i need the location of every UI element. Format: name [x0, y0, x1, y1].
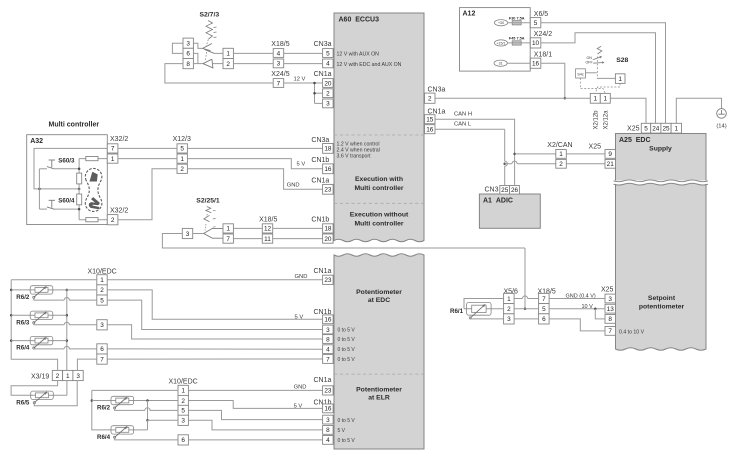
note 1.2V when control [337, 141, 380, 147]
ECU block A1 ADIC (gray box) [479, 194, 540, 228]
wire R6/4 right up (ELR) [147, 420, 149, 430]
wire R6/4 wiper to X10-6 [34, 348, 64, 350]
wire X10-2 to CN1b-16 [107, 290, 322, 319]
wire X18/5-6 to X25-7 [549, 319, 605, 331]
label CN3 [485, 186, 499, 193]
note CAN L [454, 122, 472, 128]
connector X2/12a pin 1 [600, 93, 610, 103]
wire X18/5-4 to CN3a-5 [284, 52, 323, 54]
potentiometer R6/1 [467, 302, 492, 319]
separator dashed A60 upper [334, 134, 424, 136]
label CN1b (pot EDC) [314, 309, 332, 316]
svg-text:CN1a: CN1a [314, 268, 332, 275]
wire +15/1 to X24/2-10 [508, 42, 531, 44]
wire lever to contact 1 [597, 77, 616, 79]
svg-text:5: 5 [542, 306, 546, 313]
resistor R upper (A32 chain) [77, 173, 82, 184]
svg-text:Execution without: Execution without [350, 212, 409, 219]
note 0 to 5 V (ELR) [338, 418, 356, 424]
svg-text:5: 5 [181, 408, 185, 415]
svg-text:7: 7 [326, 356, 330, 363]
svg-text:+15/1: +15/1 [496, 41, 505, 45]
wire R6/1 wiper to X5/6-3 [471, 316, 504, 319]
wire pin1 to X18/5-4 [233, 52, 273, 54]
svg-text:4: 4 [326, 347, 330, 354]
label CN1a (top) [314, 71, 332, 78]
pushbutton S60/4 [39, 208, 47, 210]
note 0 to 5 V [338, 337, 356, 343]
svg-text:3: 3 [326, 101, 330, 108]
svg-text:A1 ADIC: A1 ADIC [483, 197, 513, 204]
label X32/2 (upper) [110, 136, 128, 143]
fuse F45 7.5A [512, 41, 521, 45]
note 0.4 to 10 V [619, 330, 645, 336]
svg-text:4: 4 [326, 437, 330, 444]
note 0 to 5 V (ELR) [338, 438, 356, 444]
wire X12/3-5 to CN3a-18 [187, 147, 322, 149]
label S60/4 [58, 198, 75, 205]
svg-text:+30: +30 [498, 21, 504, 25]
svg-text:0 to 5 V: 0 to 5 V [338, 418, 356, 424]
wire X2/CAN-2 to X25-21 [566, 163, 605, 165]
note 0 to 5 V [338, 347, 356, 353]
connector X3/19 pins 2/1/3 [52, 370, 62, 380]
label X18/5 (exec) [259, 217, 277, 224]
connector X24/5 pin 7 [273, 79, 284, 88]
svg-text:26: 26 [511, 187, 519, 194]
svg-text:3: 3 [186, 231, 190, 238]
svg-text:7: 7 [100, 356, 104, 363]
wire bus to X10-3 (ELR) [148, 419, 179, 421]
junction ELR left bus R6/2 [91, 399, 94, 402]
svg-text:0 to 5 V: 0 to 5 V [338, 337, 356, 343]
connector X18/5 pins 12/11 [262, 224, 272, 243]
svg-text:X32/2: X32/2 [110, 208, 128, 215]
junction ELR center bus top [146, 399, 149, 402]
svg-text:8: 8 [608, 316, 612, 323]
wire R6/4 through (ELR) [112, 429, 148, 431]
wire branch to CN1a-2 [315, 92, 323, 94]
svg-text:R6/2: R6/2 [97, 405, 111, 412]
label CN1a (right) [428, 108, 446, 115]
wire pin8 to X24/5-7 [165, 64, 273, 83]
junction setpoint select [524, 307, 527, 310]
svg-text:R6/1: R6/1 [450, 308, 464, 315]
svg-text:6: 6 [181, 437, 185, 444]
wire X18/5-3 to CN3a-4 [284, 63, 323, 65]
label CN3a (top) [314, 41, 332, 48]
label Potentiometer (ELR) [356, 387, 402, 394]
svg-text:16: 16 [324, 406, 332, 413]
label Multi controller (with) [354, 185, 403, 192]
wire S4c to lever [585, 72, 596, 74]
connector CN1a pin 23 (exec) [323, 184, 334, 194]
svg-text:12 V with EDC and AUX ON: 12 V with EDC and AUX ON [337, 62, 402, 68]
label CN3a (mid) [311, 137, 329, 144]
note 5 V (multi) [297, 162, 306, 168]
label X2/12a (vertical) [604, 110, 610, 130]
connector X5/6 pins 1/2/3 [504, 293, 514, 324]
junction center bus R6/2 [66, 289, 69, 292]
svg-text:6: 6 [186, 51, 190, 58]
note GND (multi) [287, 182, 300, 188]
wire left bus (EDC pots) [11, 280, 57, 371]
svg-text:S60/4: S60/4 [58, 198, 75, 205]
svg-text:0 to 5 V: 0 to 5 V [338, 328, 356, 334]
junction 12V at pin2 [313, 92, 316, 95]
connector X10/EDC pins 6/7 [97, 344, 107, 364]
wire R6/4 through [11, 340, 67, 342]
svg-text:S4c: S4c [577, 73, 584, 77]
connector CN1a pin 23 (pot EDC) [323, 275, 334, 284]
wire R6/5 through [29, 394, 67, 396]
ECU block A60 ECCU3 (gray box, torn bottom edge) [334, 13, 424, 242]
svg-text:6: 6 [542, 316, 546, 323]
potentiometer R6/4 (ELR) [97, 426, 134, 441]
junction A32 bus-left [38, 188, 41, 191]
svg-text:16: 16 [426, 127, 434, 134]
svg-text:X18/5: X18/5 [271, 41, 289, 48]
svg-text:18: 18 [324, 146, 332, 153]
svg-text:S2/25/1: S2/25/1 [196, 198, 220, 205]
wire contact to pin1 [214, 52, 223, 54]
connector X32/2 pins 7/1 [107, 144, 118, 163]
svg-text:Multi controller: Multi controller [49, 121, 100, 128]
ECU block A25 EDC / Setpoint potentiometer (gray box, torn edges) [616, 134, 707, 351]
svg-text:X25: X25 [627, 126, 640, 133]
label S2/7/3 [199, 12, 219, 19]
torn tear band across A25 box [614, 181, 709, 185]
ground terminal 31 [494, 60, 507, 66]
connector X25 pins 3/13/8/7 [605, 294, 616, 335]
lower ECU block (potentiometer sections, torn top edge) [334, 254, 424, 449]
wire X10-5 to CN1b-3 (ELR) [188, 410, 322, 419]
junction chain-S60/3 [78, 168, 81, 171]
label X2/12b (vertical) [594, 110, 600, 130]
svg-text:4: 4 [277, 50, 281, 57]
svg-text:X10/EDC: X10/EDC [169, 378, 198, 385]
svg-text:1: 1 [618, 76, 622, 83]
svg-text:7: 7 [111, 146, 115, 153]
wire X10-2 to CN1b-16 (ELR) [188, 401, 322, 409]
label at ELR [368, 395, 390, 402]
label Multi controller (title) [49, 121, 100, 128]
svg-text:2: 2 [100, 287, 104, 294]
label Multi controller (without) [354, 221, 403, 228]
label S60/3 [58, 157, 75, 164]
label Setpoint [648, 295, 676, 302]
label CN1a (pot EDC) [314, 268, 332, 275]
label Potentiometer (EDC) [356, 289, 402, 296]
svg-text:GND: GND [295, 274, 308, 280]
svg-text:F45 7.5A: F45 7.5A [509, 37, 525, 41]
svg-text:CN3: CN3 [485, 186, 499, 193]
svg-text:S28: S28 [616, 57, 628, 64]
svg-text:X32/2: X32/2 [110, 136, 128, 143]
svg-text:Potentiometer: Potentiometer [356, 387, 402, 394]
label X6/5 [534, 11, 549, 18]
connector CN1b pins 18/20 [323, 224, 334, 243]
svg-text:X24/5: X24/5 [271, 71, 289, 78]
label CN1a (ELR) [314, 377, 332, 384]
svg-text:Multi controller: Multi controller [354, 185, 403, 192]
svg-text:0 to 5 V: 0 to 5 V [338, 357, 356, 363]
wire X3/19-2 to R6/5 left [11, 381, 58, 396]
potentiometer R6/2 (ELR) [97, 396, 134, 411]
wire 31 to X18/1-16 [507, 62, 530, 64]
inline contact to X32/2-2 [79, 219, 107, 221]
connector X10/EDC pins 1/2/5 [97, 275, 107, 306]
wire ELR left bus [92, 390, 112, 430]
svg-text:Supply: Supply [649, 146, 672, 153]
label X18/1 [534, 52, 552, 59]
note 10 V [582, 304, 594, 310]
connector CN3a pins 5/4 [323, 49, 334, 68]
svg-text:3: 3 [507, 316, 511, 323]
svg-text:12 V with AUX ON: 12 V with AUX ON [337, 52, 380, 58]
label S28 [616, 57, 628, 64]
label X5/6 [504, 289, 519, 296]
note 2.4V when neutral [337, 148, 380, 154]
wire X10-6 to CN1b-4 [107, 348, 322, 350]
connector pins 1/7 (S2/25/1) [223, 224, 233, 243]
svg-text:11: 11 [264, 236, 271, 243]
svg-text:12: 12 [264, 226, 272, 233]
connector X18/5 pins 7/5/6 [539, 293, 550, 324]
wire R6/3 wiper to X10-3 [34, 323, 64, 325]
wire X18/5-11 to CN1b-20 [273, 238, 323, 240]
svg-text:S60/3: S60/3 [58, 157, 75, 164]
svg-text:1: 1 [66, 373, 70, 380]
junction left bus R6/3 [10, 314, 13, 317]
note GND (pot EDC) [295, 274, 308, 280]
junction left bus R6/4 [10, 339, 13, 342]
svg-text:5: 5 [644, 126, 648, 133]
svg-text:3: 3 [100, 322, 104, 329]
connector CN3a pin 2 (right side A60) [425, 93, 436, 103]
label S2/25/1 [196, 198, 220, 205]
svg-text:2: 2 [111, 217, 115, 224]
note ON [587, 56, 593, 60]
svg-text:ON: ON [587, 56, 593, 60]
svg-text:R6/5: R6/5 [16, 399, 30, 406]
label CN1b (mid) [311, 157, 329, 164]
battery terminal +30 [494, 20, 507, 26]
label Execution with [355, 176, 403, 183]
connector X25 pins 5/24/25/1 (top of A25) [641, 123, 650, 133]
wire R6/2 through (ELR) [92, 400, 178, 402]
switch S2/7/3 lower contact arrow [203, 59, 213, 68]
svg-text:CN1b: CN1b [311, 217, 329, 224]
svg-text:at ELR: at ELR [368, 395, 390, 402]
label A25 EDC [619, 137, 651, 144]
switch S2/25/1 contact fork [204, 228, 223, 238]
svg-text:16: 16 [324, 166, 332, 173]
label A1 ADIC [483, 197, 513, 204]
svg-text:5: 5 [100, 297, 104, 304]
svg-text:1: 1 [507, 296, 511, 303]
junction 12V at pin20 [313, 82, 316, 85]
wire X10-3 to CN1b-8 (ELR) [188, 420, 322, 430]
note 12V with EDC and AUX ON [337, 62, 402, 68]
label A60 ECCU3 [339, 17, 380, 24]
svg-text:25: 25 [501, 187, 509, 194]
svg-text:1: 1 [594, 96, 598, 103]
svg-text:1: 1 [181, 388, 185, 395]
svg-text:15: 15 [426, 117, 434, 124]
svg-text:13: 13 [607, 306, 615, 313]
wire X2/12a to X25-5 [610, 98, 646, 123]
label X32/2 (lower) [110, 208, 128, 215]
wire R6/2 wiper to X10-5 (ELR) [115, 408, 145, 410]
svg-text:Execution with: Execution with [355, 176, 403, 183]
separator dashed A60 lower [334, 202, 424, 204]
wire R6/2 wiper to X10-5 [34, 298, 64, 300]
wire X12/3-1 to CN1b-16 [187, 159, 322, 169]
wire 12V branch vertical [314, 83, 316, 103]
connector X18/5 pins 4/3 [273, 49, 284, 68]
svg-text:0 to 5 V: 0 to 5 V [338, 438, 356, 444]
wire X12/3-2 to CN1a-23 [187, 169, 322, 190]
wire X5/6-1 to X18/5-7 [514, 296, 539, 299]
label Execution without [350, 212, 409, 219]
wire X24/5-7 to junction [284, 82, 323, 84]
label X25 (CAN) [589, 143, 602, 150]
wire X24/2-10 to X25-24 [541, 33, 656, 124]
connector CN1a pins 15/16 (right side A60) [425, 115, 436, 134]
junction X18/1 on supply wire [564, 97, 567, 100]
connector X10/EDC pins 1/2/5/3 (ELR) [178, 385, 188, 425]
svg-text:20: 20 [324, 236, 332, 243]
svg-text:5: 5 [326, 50, 330, 57]
label A32 [30, 138, 43, 145]
svg-text:16: 16 [532, 61, 540, 68]
wire X18/1-16 down to bus [541, 63, 565, 98]
switch S2/7/3 upper contact arrow [203, 44, 212, 51]
svg-text:6: 6 [100, 346, 104, 353]
connector pin 3 (S2/25/1) [182, 228, 192, 238]
wire CN3a-2 to X2/12b [435, 97, 590, 99]
connector pins 1/2 (S2/7/3) [223, 48, 233, 68]
wire 1 to X18/5-12 [233, 227, 262, 229]
wire setpoint select (long run to R6/1 circuit) [162, 234, 525, 249]
junction center bus R6/4 [66, 339, 69, 342]
switch S28 actuator box S4c [576, 69, 586, 78]
label CN1a (mid2) [311, 178, 329, 185]
note CAN H [454, 112, 472, 118]
svg-text:3: 3 [181, 418, 185, 425]
label X10/EDC (ELR) [169, 378, 198, 385]
connector X2/CAN pins 1/2 [556, 150, 567, 169]
label X12/3 [173, 136, 191, 143]
connector X12/3 pins 5/1/2 [177, 144, 187, 174]
svg-text:CN3a: CN3a [311, 137, 329, 144]
wire X10-5 to CN1b-3 [107, 300, 322, 329]
svg-text:X18/1: X18/1 [534, 52, 552, 59]
wire pin2 to X18/5-3 [233, 63, 273, 65]
connector X25 pins 9/21 [605, 150, 616, 169]
svg-text:21: 21 [607, 161, 615, 168]
svg-text:CN3a: CN3a [428, 87, 446, 94]
junction CAN H [513, 153, 516, 156]
svg-text:0 to 5 V: 0 to 5 V [338, 347, 356, 353]
wire CAN H [435, 119, 515, 185]
svg-text:5: 5 [534, 20, 538, 27]
wire X10-1 right [107, 279, 322, 281]
wire pin3 contact [193, 233, 204, 235]
connector CN1a pins 20/2/3 [323, 79, 334, 108]
svg-text:X2/12a: X2/12a [604, 110, 610, 130]
wire 7 to X18/5-11 [233, 238, 262, 240]
wire X5/6-1 loop to R6/1 left [464, 299, 504, 309]
svg-text:X2/CAN: X2/CAN [547, 142, 572, 149]
svg-text:5: 5 [180, 146, 184, 153]
connector CN1b pin 16 (exec) [323, 164, 334, 174]
wire setpoint select vertical [524, 248, 526, 309]
svg-text:1: 1 [111, 156, 115, 163]
wire 10V branch to X25-8 [595, 309, 605, 319]
connector X2/12b pin 1 [590, 93, 600, 103]
label X25 (top) [627, 126, 640, 133]
wire +30 to X6/5-5 [508, 22, 531, 24]
battery terminal +15/1 [494, 40, 507, 46]
svg-text:A12: A12 [463, 11, 476, 18]
fuse F30 7.5A [512, 21, 521, 25]
svg-text:X18/5: X18/5 [259, 217, 277, 224]
svg-text:25: 25 [662, 126, 670, 133]
svg-text:CN1a: CN1a [311, 178, 329, 185]
connector X24/2 pin 10 [530, 38, 541, 48]
wire X32/2-7 to X12/3-5 [118, 147, 177, 149]
wire CAN L [505, 129, 508, 185]
svg-text:1.2 V when control: 1.2 V when control [337, 141, 380, 147]
junction 10V branch [594, 307, 597, 310]
svg-text:X6/5: X6/5 [534, 11, 549, 18]
wire A32 resistor chain [78, 159, 80, 220]
svg-text:Multi controller: Multi controller [354, 221, 403, 228]
svg-text:1: 1 [559, 151, 563, 158]
device box A12 (power distribution) [460, 8, 531, 72]
connector X18/1 pin 16 [530, 58, 541, 68]
wire R6/4 wiper to X10-6 (ELR) [115, 438, 178, 440]
wire R6/2 through [11, 289, 97, 291]
wire X18/5-5 to X25-13 (10V) [549, 308, 605, 310]
label potentiometer [639, 304, 685, 311]
note GND (ELR) [294, 384, 307, 390]
svg-text:CN1a: CN1a [314, 377, 332, 384]
junction ELR center bus bottom [146, 419, 149, 422]
potentiometer R6/5 [16, 391, 53, 406]
svg-text:X25: X25 [601, 286, 614, 293]
junction A32 chain [78, 188, 81, 191]
svg-text:OFF: OFF [586, 61, 594, 65]
svg-text:(14): (14) [716, 123, 726, 129]
wire X32/2-1 to X12/3-1 [118, 158, 177, 160]
svg-text:R6/4: R6/4 [97, 434, 111, 441]
svg-text:A60 ECCU3: A60 ECCU3 [339, 17, 380, 24]
wire CAN H to X2/CAN-1 [515, 153, 556, 155]
svg-text:7: 7 [608, 328, 612, 335]
note 3.6V transport [337, 154, 372, 160]
wire jumper pins 3-6 [172, 43, 183, 53]
svg-text:2: 2 [326, 91, 330, 98]
svg-text:5 V: 5 V [338, 428, 346, 434]
wire branch to CN1a-3 [315, 102, 323, 104]
wire X3/19-3 to X10-7 [77, 359, 96, 370]
connector CN3a pin 18 [323, 144, 334, 154]
joystick icon (fast/slow pictograms) [85, 168, 102, 211]
svg-text:Setpoint: Setpoint [648, 295, 676, 302]
